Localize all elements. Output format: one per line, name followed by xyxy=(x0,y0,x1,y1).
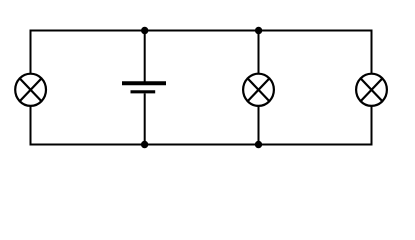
lamp L2 xyxy=(243,74,274,106)
junction bottom lamp node xyxy=(255,141,262,148)
battery B1 short plate xyxy=(131,90,156,93)
lamp L3 xyxy=(356,74,387,106)
lamp L1 xyxy=(15,74,46,106)
battery B1 long plate xyxy=(122,81,166,85)
wire battery branch upper xyxy=(144,31,146,82)
wire right branch xyxy=(371,31,373,145)
junction bottom battery node xyxy=(141,141,148,148)
wire left branch xyxy=(30,31,32,145)
wire bottom bus xyxy=(30,144,373,146)
wire middle lamp branch xyxy=(258,31,260,145)
wire battery branch lower xyxy=(144,94,146,145)
junction top battery node xyxy=(141,27,148,34)
junction top lamp node xyxy=(255,27,262,34)
wire top bus xyxy=(30,30,373,32)
